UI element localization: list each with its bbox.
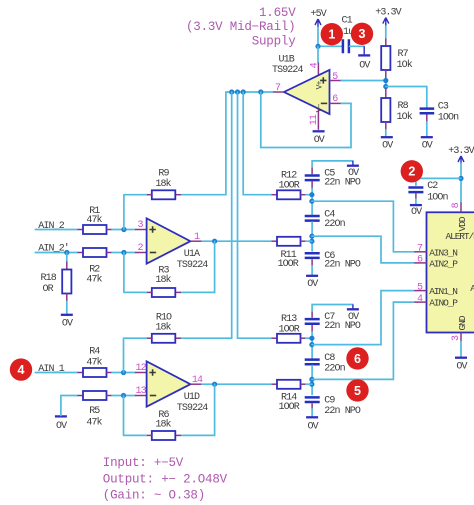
- resistor R2: [78, 248, 113, 286]
- node pin2 junction: [121, 250, 126, 255]
- pin 6 AIN2_P: [414, 255, 426, 266]
- svg-text:TS9224: TS9224: [272, 65, 304, 76]
- capacitor C2: [408, 181, 448, 204]
- node AIN0 branch junction: [309, 377, 314, 382]
- wire node to AIN2_P pin: [312, 236, 414, 263]
- pin 7 AIN3_N: [414, 244, 426, 255]
- svg-text:18k: 18k: [155, 178, 171, 190]
- svg-text:4: 4: [18, 363, 25, 377]
- resistor R1: [78, 206, 113, 234]
- svg-text:2: 2: [408, 165, 415, 179]
- red callout 3: [351, 23, 373, 45]
- svg-text:R9: R9: [158, 169, 169, 180]
- node R11/C6 junction: [309, 239, 314, 244]
- wire R9 to pin3 node: [124, 195, 146, 230]
- svg-text:18k: 18k: [155, 321, 171, 333]
- svg-text:OV: OV: [359, 60, 370, 71]
- svg-text:3: 3: [137, 220, 143, 231]
- wire rail drop to R10: [181, 92, 232, 338]
- svg-text:U1B: U1B: [279, 54, 295, 65]
- pin 5 AIN1_N: [414, 282, 426, 293]
- op-amp U1D: [147, 361, 209, 414]
- pin 7 U1B: [272, 83, 284, 94]
- svg-text:5: 5: [332, 72, 338, 83]
- wire AIN_2 input: [35, 229, 77, 231]
- node AIN2 branch junction: [309, 234, 314, 239]
- svg-text:22On: 22On: [324, 363, 345, 374]
- wire R1 to U1A pin3: [112, 229, 135, 231]
- svg-text:47k: 47k: [86, 274, 102, 286]
- svg-text:OV: OV: [62, 318, 73, 329]
- capacitor C7: [305, 305, 361, 333]
- ground 0V feeding R5: [55, 396, 78, 433]
- ground 0V under C3: [421, 137, 433, 151]
- resistor R11: [272, 237, 312, 270]
- resistor R3: [146, 265, 181, 297]
- resistor R5: [78, 391, 113, 428]
- svg-text:OV: OV: [348, 168, 359, 179]
- resistor R8: [381, 88, 413, 130]
- svg-text:1OOR: 1OOR: [278, 402, 299, 413]
- svg-text:R8: R8: [398, 101, 409, 112]
- wire +5V down to U1B pin 4: [317, 46, 319, 62]
- ground 0V under R18: [61, 302, 73, 330]
- node R14/C9 junction: [309, 382, 314, 387]
- pin 1 U1A: [190, 232, 202, 243]
- power +3.3V left: [375, 8, 401, 27]
- red callout 6: [346, 347, 368, 369]
- svg-text:V−: V−: [316, 103, 325, 112]
- svg-text:OV: OV: [382, 140, 393, 151]
- svg-text:18k: 18k: [155, 418, 171, 430]
- svg-text:1OOR: 1OOR: [278, 324, 299, 335]
- wire rail drop to R12: [243, 92, 271, 195]
- wire U1A feedback via R3: [181, 241, 215, 292]
- resistor R9: [146, 169, 181, 200]
- svg-text:AIN2_P: AIN2_P: [429, 259, 458, 270]
- node mid 3.3V divider: [383, 78, 388, 89]
- pin 3 U1A: [135, 220, 147, 231]
- wire divider node to C3: [386, 87, 427, 108]
- svg-text:2: 2: [137, 243, 143, 254]
- svg-text:1OOn: 1OOn: [438, 113, 459, 124]
- IC U2 ADC body: [427, 212, 474, 332]
- svg-text:R18: R18: [41, 273, 57, 284]
- resistor R13: [272, 314, 312, 343]
- wire node to AIN0_P pin: [312, 302, 414, 379]
- pin 12 U1D: [135, 363, 147, 374]
- svg-text:13: 13: [135, 386, 146, 397]
- svg-text:1Ok: 1Ok: [397, 111, 413, 123]
- node rail junctions: [229, 89, 263, 94]
- ground 0V under C9: [306, 417, 318, 432]
- svg-text:1: 1: [328, 28, 335, 42]
- svg-text:OV: OV: [348, 312, 359, 323]
- pin 11 U1B: [309, 109, 320, 130]
- wire VDD node to C2: [416, 178, 461, 185]
- svg-text:C3: C3: [438, 101, 449, 112]
- pin 13 U1D: [135, 386, 147, 397]
- capacitor C8: [305, 353, 346, 395]
- node U1A output junction: [212, 239, 217, 244]
- svg-text:OV: OV: [422, 140, 433, 151]
- pin 2 U1A: [135, 243, 147, 254]
- power +5V: [311, 9, 327, 28]
- svg-text:Input: +−5V: Input: +−5V: [103, 456, 184, 470]
- node VDD branch junction: [458, 176, 463, 181]
- red callout 1: [321, 23, 343, 45]
- svg-text:1.65V: 1.65V: [259, 6, 296, 20]
- svg-text:TS9224: TS9224: [177, 260, 209, 271]
- svg-text:3: 3: [359, 27, 366, 41]
- wire U1D output to R14: [202, 383, 272, 385]
- resistor R18: [41, 253, 72, 302]
- svg-text:11: 11: [309, 114, 320, 125]
- svg-text:5: 5: [417, 282, 423, 293]
- node R12/C5 junction: [309, 192, 314, 197]
- svg-text:1OOR: 1OOR: [277, 259, 298, 270]
- svg-text:22n NPO: 22n NPO: [324, 321, 361, 332]
- svg-text:AIN1_N: AIN1_N: [429, 286, 457, 297]
- svg-text:+3.3V: +3.3V: [375, 8, 401, 19]
- svg-text:7: 7: [275, 83, 281, 94]
- svg-text:R4: R4: [89, 346, 100, 357]
- svg-text:47k: 47k: [86, 214, 102, 226]
- node AIN3 branch junction: [309, 199, 314, 204]
- wire R2 to U1A pin2: [112, 252, 135, 254]
- svg-text:6: 6: [354, 352, 361, 366]
- svg-text:47k: 47k: [86, 416, 102, 428]
- wire AIN_2' input: [35, 252, 77, 254]
- node R13/C7 junction: [309, 336, 314, 341]
- wire node to AIN3_N pin: [312, 201, 414, 252]
- wire R10 to pin12 node: [124, 338, 147, 372]
- svg-text:+3.3V: +3.3V: [448, 146, 474, 157]
- pin 8 VDD: [451, 202, 462, 212]
- wire R5 to U1D pin13: [112, 395, 135, 397]
- wire U1D feedback via R6: [181, 384, 215, 435]
- svg-text:12: 12: [135, 363, 146, 374]
- red callout 2: [401, 160, 423, 182]
- svg-text:OV: OV: [411, 207, 422, 218]
- svg-text:U1D: U1D: [184, 392, 200, 403]
- ground 0V right of C5: [347, 161, 359, 179]
- red callout 4: [10, 358, 32, 380]
- svg-text:Output: +− 2.O48V: Output: +− 2.O48V: [103, 472, 228, 486]
- svg-text:U1A: U1A: [184, 249, 200, 260]
- svg-text:22n NPO: 22n NPO: [324, 260, 361, 271]
- svg-text:C2: C2: [427, 181, 438, 192]
- svg-text:7: 7: [417, 244, 423, 255]
- capacitor C4: [305, 209, 346, 251]
- svg-text:AINO_P: AINO_P: [429, 298, 458, 309]
- svg-text:TS9224: TS9224: [177, 403, 209, 414]
- svg-text:R12: R12: [281, 170, 297, 181]
- svg-text:1Ok: 1Ok: [397, 59, 413, 71]
- svg-text:47k: 47k: [86, 357, 102, 369]
- svg-text:OV: OV: [456, 362, 467, 373]
- svg-text:1OOR: 1OOR: [278, 181, 299, 192]
- wire U1B feedback loop: [261, 92, 351, 148]
- wire rail drop to R9: [181, 92, 226, 195]
- svg-text:1OOn: 1OOn: [427, 192, 448, 203]
- svg-text:22On: 22On: [324, 219, 345, 230]
- pin 4 AIN0_P: [414, 294, 426, 305]
- op-amp U1B: [272, 54, 330, 114]
- svg-text:+5V: +5V: [311, 9, 327, 20]
- svg-text:VDD: VDD: [457, 216, 468, 231]
- pin 3 GND: [451, 333, 462, 342]
- svg-text:3: 3: [451, 335, 462, 341]
- capacitor C1: [342, 15, 365, 53]
- svg-text:OR: OR: [43, 284, 54, 295]
- wire +3.3V to VDD pin 8: [460, 164, 462, 203]
- svg-text:OV: OV: [314, 135, 325, 146]
- resistor R12: [272, 170, 312, 199]
- node AIN1 branch junction: [309, 342, 314, 347]
- ground 0V under C2: [410, 205, 422, 218]
- ground 0V under R8: [381, 130, 393, 152]
- svg-text:5: 5: [354, 384, 361, 398]
- node +5V junction: [315, 44, 320, 49]
- resistor R14: [272, 380, 312, 413]
- resistor R4: [78, 346, 113, 377]
- wire U1B output rail: [226, 91, 272, 93]
- wire C7 to C8 node: [311, 332, 313, 358]
- power +3.3V right: [448, 146, 474, 164]
- svg-text:OV: OV: [307, 422, 318, 433]
- svg-text:6: 6: [332, 94, 338, 105]
- svg-text:ALERT/RDY: ALERT/RDY: [446, 231, 474, 242]
- wire R3 to pin2 node: [124, 253, 146, 293]
- svg-text:(Gain: ~ O.38): (Gain: ~ O.38): [103, 489, 205, 503]
- node U1D output junction: [212, 382, 217, 387]
- svg-text:22n NPO: 22n NPO: [324, 406, 361, 417]
- notes gain text: [103, 456, 228, 503]
- wire C5 to C4 node: [311, 189, 313, 215]
- svg-text:Supply: Supply: [252, 34, 297, 48]
- svg-text:R7: R7: [398, 49, 409, 60]
- red callout 5: [346, 379, 368, 401]
- resistor R10: [146, 313, 181, 343]
- svg-text:OV: OV: [56, 421, 67, 432]
- ground 0V under U1B: [313, 131, 325, 146]
- svg-text:18k: 18k: [155, 274, 171, 286]
- node pin13 junction: [121, 393, 126, 398]
- wire +5V node to C1: [318, 45, 342, 47]
- node R18 tap: [64, 250, 69, 255]
- svg-text:ADDR: ADDR: [470, 283, 474, 294]
- wire rail drop to R13: [238, 92, 272, 338]
- svg-text:(3.3V Mid−Rail): (3.3V Mid−Rail): [186, 20, 296, 34]
- node pin12 junction: [121, 370, 126, 375]
- svg-text:AIN3_N: AIN3_N: [429, 247, 457, 258]
- wire U1A output to R11: [202, 240, 272, 242]
- svg-text:22n NPO: 22n NPO: [324, 178, 361, 189]
- op-amp U1A: [147, 218, 209, 270]
- ground 0V right of C1: [358, 46, 370, 71]
- svg-text:GND: GND: [457, 315, 468, 330]
- node pin3 junction: [121, 227, 126, 232]
- svg-text:R5: R5: [89, 406, 100, 417]
- svg-text:4: 4: [417, 294, 423, 305]
- pin 14 U1D: [190, 375, 203, 386]
- pin 4 U1B: [310, 62, 321, 74]
- svg-text:8: 8: [451, 202, 462, 208]
- capacitor C5: [305, 161, 361, 189]
- resistor R7: [381, 46, 413, 79]
- title note 1.65V supply: [186, 6, 296, 48]
- svg-text:AIN_1: AIN_1: [38, 364, 64, 375]
- ground 0V under GND pin: [455, 342, 467, 373]
- wire AIN_1 input: [35, 372, 77, 374]
- capacitor C9: [305, 396, 361, 417]
- ground 0V right of C7: [347, 305, 359, 323]
- resistor R6: [146, 410, 181, 440]
- svg-text:OV: OV: [307, 279, 318, 290]
- pin 5 U1B: [330, 72, 342, 83]
- ground 0V under C6: [306, 276, 318, 290]
- capacitor C3: [420, 101, 460, 136]
- svg-text:6: 6: [417, 255, 423, 266]
- svg-text:4: 4: [310, 62, 321, 68]
- wire U1B pin5 to R7/R8 node: [341, 80, 386, 82]
- pin 6 U1B: [330, 94, 342, 105]
- capacitor C6: [305, 251, 361, 275]
- svg-text:V+: V+: [316, 80, 325, 89]
- svg-text:1: 1: [194, 232, 200, 243]
- svg-text:C1: C1: [342, 15, 353, 26]
- wire R4 to U1D pin12: [112, 372, 135, 374]
- wire node to AIN1_N pin: [312, 291, 414, 345]
- wire R6 to pin13 node: [124, 396, 147, 436]
